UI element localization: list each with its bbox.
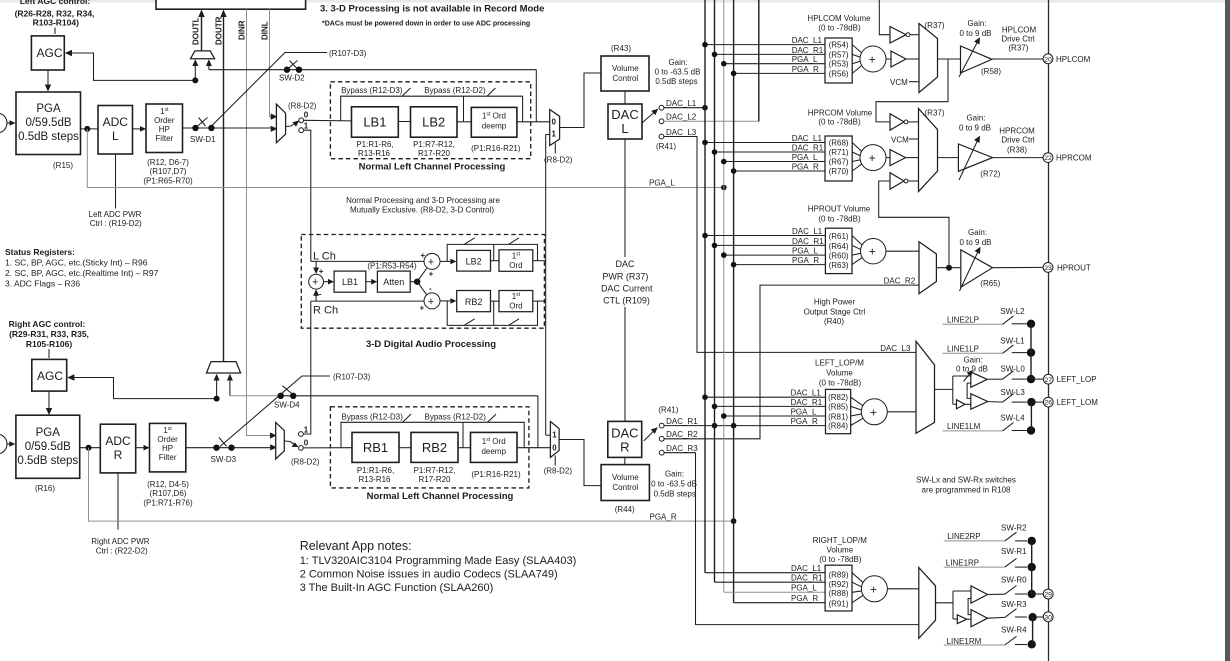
bypass wire R12-D3 lower [341,422,524,447]
sum3D-up circle [424,253,440,269]
switch SW-R1 lever [1005,558,1017,567]
text Left AGC control [15,0,95,28]
wire top branch [953,375,971,377]
svg-text:SW-R1: SW-R1 [1001,547,1027,556]
dashed box 3-D processing [301,235,544,329]
ADC R label [105,434,131,462]
junction cross-couple dot [946,265,952,271]
svg-text:Gain:: Gain: [963,356,982,365]
svg-text:+: + [869,245,876,259]
bypass lever 2 lower [488,414,497,422]
svg-text:PGA_R: PGA_R [792,256,819,265]
switch SW-L4 stub [1012,430,1027,432]
svg-text:0 to -63.5 dB: 0 to -63.5 dB [655,68,701,77]
gain arrow [959,139,979,181]
HPROUT row DAC_R1 [715,244,826,246]
wire SW-L0 in [987,378,1002,380]
svg-text:+: + [870,405,877,419]
switch SW-R4 lever [1005,636,1017,645]
text HPLCOM Drive Ctrl [1001,26,1036,53]
text gain DAC R [651,470,697,499]
dot [702,140,708,146]
svg-text:(R8-D2): (R8-D2) [291,458,320,467]
switch SW-R3 lever [1005,609,1017,618]
contact 0 input mux R [299,446,304,451]
svg-text:R: R [620,440,629,455]
svg-text:(R107-D3): (R107-D3) [333,373,371,382]
HPRCOM buffer mid [890,150,906,166]
DAC L label [611,107,638,136]
RB2-3D box [457,291,491,312]
wire mux to amp [938,157,959,159]
svg-text:PGA_L: PGA_L [792,247,818,256]
wire PGA L to ADC L [81,128,99,130]
arrowhead into HP R [144,445,150,451]
pin 23 circle [1043,263,1053,273]
svg-text:20: 20 [1044,56,1052,63]
RIGHT small inverter [957,615,966,624]
svg-text:DAC_L3: DAC_L3 [880,344,911,353]
svg-text:-: - [429,284,432,293]
arrowhead lever DAC R [651,427,658,434]
svg-text:R17-R20: R17-R20 [418,475,451,484]
svg-text:DAC Current: DAC Current [601,284,653,294]
svg-text:R103-R104): R103-R104) [33,18,79,28]
junction PGA_L bus dot [721,185,727,191]
junction ADC R tap dot [214,396,220,402]
svg-text:LEFT_LOP/M: LEFT_LOP/M [815,359,864,368]
svg-text:(R89): (R89) [828,570,848,579]
text LEFT_LOP/M Volume [815,359,864,388]
junction Atten out dot [414,279,420,285]
svg-text:+: + [428,296,434,308]
svg-text:(R53): (R53) [829,60,849,69]
wire out mux L to volume L [560,73,601,128]
text Right AGC control [9,319,89,349]
bracket [967,383,971,398]
arrowhead DINR into mux R [270,432,277,438]
contact DAC_L1 [659,105,664,110]
RIGHTLOP row PGA_L [724,591,825,593]
LEFTLOP register box [826,389,851,433]
wire LINE2LP [943,323,1003,325]
wire to pin 27 [1031,378,1043,380]
svg-text:DAC_R1: DAC_R1 [666,417,698,426]
svg-text:AGC: AGC [37,369,63,383]
svg-text:Drive Ctrl: Drive Ctrl [1001,136,1035,145]
lever input mux R [284,441,297,446]
arrowhead into LB1-3D [328,279,334,285]
dot SW-R4 [1028,640,1036,648]
svg-text:Gain:: Gain: [668,58,687,67]
svg-text:Order: Order [154,116,175,125]
arrowhead into input mux R lower [270,444,277,450]
svg-text:DINL: DINL [261,21,270,40]
svg-text:+: + [869,151,876,165]
svg-text:(R44): (R44) [615,505,635,514]
dot [712,52,718,58]
svg-text:DAC: DAC [611,426,638,441]
HPROUT register box [825,228,852,273]
svg-text:Normal Left Channel Processing: Normal Left Channel Processing [367,491,514,502]
HPLCOM mux R37 [919,24,938,93]
text RB2 registers [414,466,456,484]
wire contact1 L to 3-D [304,130,311,261]
HPRCOM row DAC_R1 [715,151,826,153]
LEFTLOP sum converge wires [851,397,865,425]
wire sum3D-left to LB1-3D arrow [324,281,332,283]
RIGHTLOP row PGA_R [734,602,826,604]
svg-text:1: 1 [552,431,557,440]
wire R into sum3D-left arrow [315,292,317,301]
LB2 box [411,107,458,137]
switch SW-D1 dots [192,125,198,131]
wire Atten out [410,281,417,283]
LEFTLOP row DAC_L1 [705,396,826,398]
HPRCOM row PGA_L [724,161,825,163]
text Status Registers [5,247,159,289]
wire LB1 to LB2 [398,121,410,123]
svg-text:0 to 9 dB: 0 to 9 dB [956,365,988,374]
arrowhead into DOUT mux right [206,59,212,66]
bypass 3D lower lever2 [509,319,520,326]
top window strip [0,0,1230,3]
svg-text:Gain:: Gain: [967,19,986,28]
wire SW-D2 line [209,69,536,71]
HPROUT row PGA_L [724,254,826,256]
wire DAC R to volume R [624,457,626,464]
HPROUT sum circle [861,239,886,264]
wire SW-D4 branch up-arrow [229,376,231,396]
switch SW-L0 stub [1012,378,1027,380]
HPRCOM sum converge wires [852,143,863,172]
svg-text:LINE1LM: LINE1LM [947,422,981,431]
svg-text:SW-D4: SW-D4 [274,401,300,410]
svg-text:SW-L4: SW-L4 [1000,414,1025,423]
pin 27 circle [1043,374,1053,384]
arrowhead into sum3D-left bottom [313,289,319,296]
wire AGC R pointer [48,349,50,358]
HP filter L box [146,104,183,153]
svg-text:(R8-D2): (R8-D2) [288,102,317,111]
svg-text:(R37): (R37) [1008,44,1028,53]
svg-text:PWR (R37): PWR (R37) [602,272,648,282]
text High Power Output Stage Ctrl [804,298,866,327]
wire LB2 to deemp L [457,121,471,123]
HPRCOM mux R37 [919,109,938,192]
contact 0 input mux L [299,118,304,123]
HPLCOM row PGA_R [734,72,825,74]
svg-text:DAC_L3: DAC_L3 [666,128,697,137]
svg-text:L: L [112,129,119,143]
svg-text:CTL (R109): CTL (R109) [603,296,650,306]
svg-text:R17-R20: R17-R20 [418,149,451,158]
bus vertical DAC_R1 [714,0,716,582]
arrowhead lever L [293,120,300,126]
svg-text:DAC_L2: DAC_L2 [666,113,697,122]
wire HP R to SW-D3 [186,447,232,449]
svg-text:SW-R0: SW-R0 [1001,576,1027,585]
HPROUT sum converge wires [852,236,863,265]
svg-text:HPRCOM Volume: HPRCOM Volume [808,109,873,118]
text HPRCOM Volume [808,109,873,127]
HPRCOM row PGA_R [734,170,825,172]
svg-text:P1:R1-R6,: P1:R1-R6, [356,140,393,149]
text Gain LEFT driver [956,356,988,374]
wire AGC L pointer [54,28,56,35]
svg-text:Left AGC control:: Left AGC control: [20,0,91,6]
svg-text:(R61): (R61) [829,232,849,241]
svg-text:+: + [870,582,877,596]
svg-text:LB1: LB1 [342,277,358,287]
svg-text:Right ADC PWR: Right ADC PWR [91,537,149,546]
serial interface box (cut at top) [156,0,306,9]
wire into out mux L input 1 [546,134,550,136]
svg-text:HPLCOM Volume: HPLCOM Volume [807,14,871,23]
wire mux to driver [935,388,953,390]
dashed box Normal Channel Processing lower [330,407,529,488]
svg-text:deemp: deemp [481,447,506,456]
switch SW-D3 dots [213,445,219,451]
HPLCOM row DAC_R1 [715,53,826,55]
svg-text:Ord: Ord [509,302,522,311]
wire SW-D2 down to deemp line [535,70,537,122]
svg-text:26: 26 [1045,400,1053,407]
svg-text:HPLCOM: HPLCOM [1056,55,1091,64]
column wire SW-L2 to SW-L0 [1030,324,1032,379]
svg-text:(P1:R65-R70): (P1:R65-R70) [143,177,193,186]
svg-text:LINE1RP: LINE1RP [946,558,979,567]
svg-text:DAC: DAC [615,259,635,269]
text HP R registers [143,480,193,508]
dot SW-L1 [1027,348,1035,356]
text RB1 registers [357,466,394,484]
wire sum3D-up to LB2-3D arrow [440,260,454,262]
svg-text:LEFT_LOP: LEFT_LOP [1057,375,1097,384]
svg-text:(R37): (R37) [925,21,945,30]
wire out mux R to volume R [559,440,601,486]
dot [702,233,708,239]
svg-text:DINR: DINR [238,20,247,40]
junction PGA_R row dot [731,423,737,429]
text switches programmed note [916,476,1016,495]
svg-text:SW-L0: SW-L0 [1001,364,1026,373]
LEFTLOP registers [828,393,848,431]
svg-text:0 to 9 dB: 0 to 9 dB [959,124,991,133]
wire DOUTR [223,13,225,362]
HPRCOM registers [829,139,849,177]
wire sum to buffer [886,157,890,159]
arrowhead input R [9,441,15,447]
AGC R box [32,359,67,391]
wire DAC_L2 [664,0,759,121]
ADC L label [103,115,129,143]
svg-text:LB1: LB1 [363,115,386,130]
RIGHTLOP row DAC_R1 [715,581,826,583]
bracket [968,599,971,615]
switch SW-R3 stub [1015,616,1027,618]
arrowhead input L [10,120,16,126]
svg-text:DAC_L1: DAC_L1 [791,564,822,573]
chip boundary line [1048,0,1050,661]
svg-text:DAC_R1: DAC_R1 [791,398,823,407]
DAC R label [611,426,638,455]
switch SW-D4 lever [283,386,294,395]
text Gain amp HPROUT [959,228,991,247]
svg-text:Gain:: Gain: [968,228,987,237]
wire SW-D2 branch up-arrow [208,61,210,70]
svg-text:(R12, D6-7): (R12, D6-7) [147,158,189,167]
wire DAC_L3 [664,137,916,353]
HPROUT mux [919,242,936,294]
RIGHTLOP row DAC_L1 [705,572,825,574]
bypass wire R12-D3 upper [341,96,523,122]
svg-text:Right AGC control:: Right AGC control: [9,319,86,329]
arrowhead into DOUT mux left [192,59,198,66]
wire ord-up out to select net [533,260,546,262]
wire bubble to mux [908,121,919,123]
arrowhead into HP L [140,126,146,132]
wire SW-D1 to input mux L [211,127,273,129]
svg-text:22: 22 [1044,155,1052,162]
svg-text:(R82): (R82) [828,393,848,402]
lever DAC R [644,430,655,441]
contact DAC_R3 [659,450,664,455]
svg-text:Order: Order [157,435,178,444]
svg-text:R13-R16: R13-R16 [358,149,391,158]
wire ADC L pwr [115,155,117,209]
svg-text:(R38): (R38) [1007,146,1027,155]
wire amp to pin 20 [992,58,1043,60]
svg-text:0: 0 [304,439,309,448]
svg-text:+: + [428,256,434,268]
junction PGA_R bus dot [731,518,737,524]
svg-text:Volume: Volume [612,473,639,482]
text HPLCOM Volume [807,14,871,33]
svg-text:DOUTL: DOUTL [192,17,201,45]
svg-text:(R72): (R72) [980,170,1000,179]
dot [712,404,718,410]
wire sum to buffer [886,58,891,60]
svg-text:Volume: Volume [826,546,853,555]
text Right ADC PWR [91,537,149,556]
svg-text:(R107,D6): (R107,D6) [150,489,187,498]
svg-text:RB2: RB2 [422,440,447,455]
bypass 3D upper wire [447,244,537,261]
wire contact1 R to 3-D [303,301,311,434]
switch SW-L4 lever [1003,423,1014,431]
HPRCOM inv buffer top [890,114,904,131]
svg-text:Status Registers:: Status Registers: [5,247,75,257]
HPROUT row PGA_R [734,264,826,266]
wire contact0 L to LB1 [304,119,352,122]
svg-text:Bypass (R12-D2): Bypass (R12-D2) [425,412,487,421]
svg-text:(R81): (R81) [828,412,848,421]
svg-text:PGA: PGA [36,103,61,115]
svg-text:P1:R7-R12,: P1:R7-R12, [414,466,456,475]
svg-text:0: 0 [304,111,309,120]
svg-text:2 Common Noise issues in audi: 2 Common Noise issues in audio Codecs (S… [300,569,558,581]
gain arrow [960,250,980,292]
svg-text:LB2: LB2 [466,257,482,267]
RIGHT driver top triangle [971,586,988,603]
svg-text:P1:R1-R6,: P1:R1-R6, [357,466,394,475]
wire to pin 30 [1033,616,1044,618]
PGA R label [17,427,78,467]
input mux R (R8-D2) [276,422,285,459]
bus vertical DAC_L2 up [758,0,760,121]
pointer out mux R [554,456,556,466]
HPLCOM row DAC_L1 [705,44,825,46]
svg-text:Gain:: Gain: [966,114,985,123]
svg-text:L Ch: L Ch [313,251,336,263]
svg-text:+: + [420,304,425,313]
svg-text:PGA_L: PGA_L [791,407,817,416]
svg-text:SW-L3: SW-L3 [1001,388,1026,397]
wire R Ch [311,300,425,302]
svg-text:RB2: RB2 [465,297,483,307]
contact DAC_L3 [659,134,664,139]
wire DAC_R3 [664,453,919,625]
arrowhead lever R [292,442,299,447]
HPLCOM sum circle [860,46,886,72]
wire to pin 29 [1032,593,1044,595]
svg-text:(0 to -78dB): (0 to -78dB) [819,379,862,388]
contact DAC_R1 [659,423,664,428]
input mux L (R8-D2) [276,104,285,143]
junction PGA_R tap dot [86,445,92,451]
svg-text:DAC_L1: DAC_L1 [792,36,823,45]
lever DAC L [642,111,656,123]
wire amp to pin 23 [993,266,1044,268]
pin 22 circle [1043,153,1053,163]
svg-text:L: L [621,121,628,136]
wire bubble to mux [908,180,919,182]
svg-text:DAC_R2: DAC_R2 [884,277,916,286]
bypass 3D lower lever1 [464,319,475,326]
svg-text:PGA_R: PGA_R [650,513,677,522]
svg-text:23: 23 [1044,265,1052,272]
wire contact0 R to RB1 [303,447,352,449]
input arc MIC L [0,113,7,133]
svg-text:PGA_L: PGA_L [792,153,818,162]
bypass 3D upper lever2 [509,238,520,245]
svg-text:PGA_R: PGA_R [792,162,819,171]
wire ADC L to HP filter arrow [133,128,144,130]
svg-text:0/59.5dB: 0/59.5dB [25,117,71,129]
volume control L box [601,56,649,91]
svg-text:Filter: Filter [155,134,173,143]
svg-text:LINE2LP: LINE2LP [947,316,979,325]
svg-text:PGA_L: PGA_L [792,55,818,64]
wire deemp R to out mux 0 [517,447,550,449]
text Gain amp HPRCOM [959,114,991,133]
switch SW-L2 stub [1012,323,1027,325]
switch SW-R1 stub [1015,566,1027,568]
svg-text:(R56): (R56) [829,69,849,78]
svg-text:27: 27 [1045,377,1053,384]
bypass 3D lower mid tap [493,301,495,325]
switch SW-L3 stub [1012,401,1027,403]
wire SW-R0 in [988,593,1005,595]
ord-dn box [499,291,533,312]
HPRCOM row DAC_L1 [705,142,825,144]
arrowhead into PGA L [45,85,51,92]
bypass tap RB2 out lower [462,422,464,447]
wire inverter to bottom triangle [965,403,971,405]
svg-text:Bypass (R12-D2): Bypass (R12-D2) [424,86,486,95]
svg-text:(R91): (R91) [828,599,848,608]
